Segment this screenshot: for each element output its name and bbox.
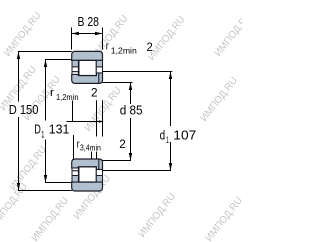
cage bar left (bottom) — [72, 176, 78, 183]
r mid-left leader vertical — [72, 101, 74, 122]
cage window left (bottom) — [72, 171, 78, 176]
B left arrow — [72, 32, 80, 36]
svg-text:1,2min: 1,2min — [111, 46, 137, 56]
d1 top arrow — [169, 72, 172, 80]
r34 left leader — [73, 135, 75, 159]
svg-text:2: 2 — [91, 85, 98, 99]
roller (bottom section) — [79, 167, 96, 182]
d1 bottom arrow — [169, 163, 172, 171]
svg-text:D 150: D 150 — [9, 102, 39, 117]
d1 bottom leader — [103, 170, 172, 172]
svg-text:d: d — [160, 127, 166, 142]
loose flange line (top section) — [98, 73, 100, 84]
svg-text:1: 1 — [166, 135, 169, 146]
D top leader — [18, 51, 72, 53]
inner ring (bottom, lips up; right lip is loose flange) — [72, 73, 103, 84]
svg-text:1: 1 — [41, 130, 44, 141]
d1 top leader — [103, 71, 173, 73]
svg-text:107: 107 — [173, 127, 196, 142]
d bottom arrow — [129, 153, 132, 161]
B dimension line — [72, 33, 103, 35]
B extension left — [71, 28, 73, 50]
D1 dimension line — [45, 60, 47, 121]
r extension line b — [102, 100, 104, 136]
svg-text:2: 2 — [119, 137, 126, 151]
D1 bottom arrow — [44, 175, 47, 183]
r34 leader b — [96, 152, 98, 160]
watermark grid IMPOD.RU — [0, 10, 254, 242]
loose flange line (bottom section) — [98, 159, 100, 170]
svg-text:d 85: d 85 — [120, 102, 143, 117]
r extension line a — [96, 100, 98, 136]
d top arrow — [129, 83, 132, 91]
svg-text:2: 2 — [147, 42, 153, 54]
svg-text:3,4min: 3,4min — [80, 142, 101, 152]
svg-text:B 28: B 28 — [78, 14, 99, 29]
cage window right (top) — [96, 67, 102, 73]
cage bar right (bottom) — [96, 176, 102, 183]
outer ring top band — [72, 51, 103, 60]
svg-text:r: r — [50, 87, 54, 99]
outer ring bottom band — [72, 182, 103, 191]
cage gap left (top) — [72, 72, 78, 75]
B right arrow — [95, 32, 103, 36]
cage window left (top) — [72, 67, 78, 72]
cage bar right (top) — [96, 60, 102, 67]
D dimension line — [18, 52, 20, 102]
inner ring (top, lips down; right lip is loose flange) — [72, 159, 103, 170]
D1 bottom leader — [45, 182, 72, 184]
svg-text:1,2min: 1,2min — [56, 92, 79, 102]
D1 top arrow — [44, 60, 47, 68]
axis leader arrow — [99, 120, 104, 123]
cage gap left (bottom) — [72, 168, 78, 171]
arrowheads — [17, 32, 172, 191]
axis leader horizontal — [67, 121, 104, 123]
svg-text:D: D — [34, 122, 41, 137]
svg-text:r: r — [106, 41, 109, 53]
r34 leader a — [91, 152, 93, 160]
svg-text:131: 131 — [49, 122, 70, 137]
d dimension line — [130, 83, 132, 105]
D1 top leader — [45, 59, 72, 61]
cage bar left (top) — [72, 60, 78, 67]
D bottom leader — [18, 190, 72, 192]
d top leader — [103, 82, 133, 84]
D top arrow — [17, 52, 20, 60]
roller (top section) — [79, 60, 96, 75]
d1 dimension line — [170, 72, 172, 127]
B extension right — [102, 28, 104, 50]
d bottom leader — [103, 160, 132, 162]
cage window right (bottom) — [96, 170, 102, 176]
D bottom arrow — [17, 183, 20, 191]
